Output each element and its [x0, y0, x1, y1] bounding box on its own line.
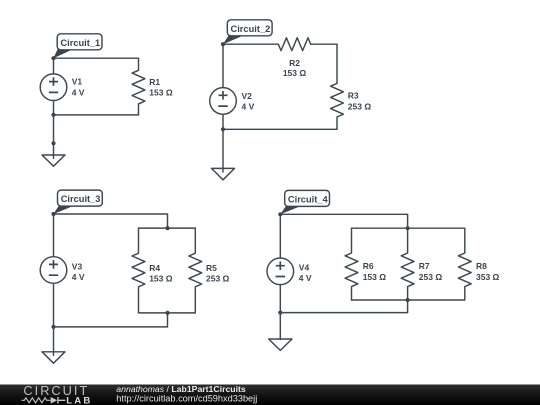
- logo diode: [51, 397, 66, 404]
- wire bottom C3: [54, 313, 168, 327]
- wire bottom C2: [223, 128, 337, 130]
- wire left-bottom C3: [53, 284, 55, 327]
- wire top C3: [54, 214, 168, 228]
- ground C3: [42, 352, 65, 363]
- wire left-bottom C2: [222, 115, 224, 130]
- node dot C3 top-left: [51, 212, 55, 216]
- svg-text:V1: V1: [72, 77, 83, 87]
- footer line 1: author / title: [116, 384, 246, 394]
- wire bottom C4: [280, 300, 407, 313]
- resistor R4: [132, 228, 173, 313]
- wire top-left C2: [223, 43, 278, 45]
- svg-text:annathomas / Lab1Part1Circuits: annathomas / Lab1Part1Circuits: [116, 384, 246, 394]
- node dot C2 bottom-left: [221, 127, 225, 131]
- svg-text:http://circuitlab.com/cd59hxd3: http://circuitlab.com/cd59hxd33bejj: [116, 394, 257, 404]
- wire top bar C4: [352, 227, 465, 229]
- voltage source V3: [40, 257, 85, 284]
- svg-text:153 Ω: 153 Ω: [149, 88, 173, 98]
- resistor R2: [278, 38, 310, 78]
- svg-text:R6: R6: [363, 261, 374, 271]
- resistor R7: [401, 228, 442, 300]
- junction dot C4 top: [406, 226, 410, 230]
- svg-text:4 V: 4 V: [72, 272, 85, 282]
- wire left-top C1: [53, 58, 55, 73]
- svg-text:153 Ω: 153 Ω: [363, 272, 387, 282]
- wire left-top C3: [53, 214, 55, 256]
- svg-text:R1: R1: [149, 77, 160, 87]
- wire left-bottom C1: [53, 101, 55, 115]
- node dot C2 top-left: [221, 42, 225, 46]
- wire bottom C1: [54, 114, 139, 116]
- svg-text:Circuit_3: Circuit_3: [61, 194, 101, 204]
- node dot C1 bottom-left: [51, 113, 55, 117]
- wire ground stem C1: [53, 115, 55, 158]
- node dot C1 ground: [51, 141, 55, 145]
- svg-text:Circuit_1: Circuit_1: [60, 38, 100, 48]
- node label Circuit_3: [54, 190, 103, 214]
- svg-text:153 Ω: 153 Ω: [283, 68, 307, 78]
- resistor R3: [331, 44, 372, 129]
- svg-text:R4: R4: [149, 263, 160, 273]
- wire top bar C3: [139, 227, 196, 229]
- svg-text:Circuit_2: Circuit_2: [231, 24, 271, 34]
- svg-text:R7: R7: [419, 261, 430, 271]
- wire left-top C2: [222, 44, 224, 87]
- wire bottom bar C4: [352, 299, 465, 301]
- logo resistor zigzag: [22, 398, 51, 403]
- node dot C3 bottom-left: [51, 325, 55, 329]
- ground C2: [212, 168, 235, 179]
- node label Circuit_4: [280, 190, 329, 214]
- wire ground stem C3: [53, 327, 55, 356]
- svg-text:253 Ω: 253 Ω: [206, 273, 230, 283]
- logo LAB text: [66, 395, 92, 405]
- wire top-right C2: [311, 43, 337, 45]
- svg-text:V3: V3: [72, 261, 83, 271]
- junction dot C3 bottom: [165, 311, 169, 315]
- wire ground stem C2: [222, 129, 224, 172]
- ground C1: [42, 155, 65, 166]
- ground C4: [269, 339, 292, 350]
- svg-text:253 Ω: 253 Ω: [419, 272, 443, 282]
- node label Circuit_2: [223, 20, 272, 44]
- junction dot C3 top: [165, 226, 169, 230]
- node dot C1 top-left: [51, 56, 55, 60]
- svg-text:R3: R3: [348, 91, 359, 101]
- node label Circuit_1: [54, 34, 103, 58]
- node dot C4 bottom-left: [278, 311, 282, 315]
- svg-text:253 Ω: 253 Ω: [348, 101, 372, 111]
- svg-text:Circuit_4: Circuit_4: [288, 195, 329, 205]
- resistor R6: [345, 228, 386, 300]
- resistor R5: [189, 228, 230, 313]
- footer bar: [0, 385, 540, 405]
- svg-text:4 V: 4 V: [242, 102, 255, 112]
- svg-text:153 Ω: 153 Ω: [149, 273, 173, 283]
- voltage source V2: [210, 88, 255, 115]
- wire top C1: [54, 57, 139, 59]
- wire top C4: [280, 214, 407, 228]
- junction dot C4 bottom: [406, 298, 410, 302]
- wire ground stem C4: [279, 313, 281, 340]
- svg-text:R8: R8: [476, 261, 487, 271]
- voltage source V4: [267, 258, 312, 285]
- svg-text:V2: V2: [242, 91, 253, 101]
- resistor R8: [458, 228, 499, 300]
- svg-text:V4: V4: [299, 262, 310, 272]
- wire bottom bar C3: [139, 312, 196, 314]
- voltage source V1: [40, 74, 85, 101]
- footer line 2: url: [116, 394, 257, 404]
- wire left-bottom C4: [279, 285, 281, 313]
- wire left-top C4: [279, 214, 281, 257]
- svg-text:4 V: 4 V: [72, 87, 85, 97]
- svg-text:4 V: 4 V: [299, 273, 312, 283]
- logo CIRCUIT text: [23, 383, 89, 398]
- svg-text:R2: R2: [289, 58, 300, 68]
- svg-text:LAB: LAB: [66, 395, 92, 405]
- svg-text:R5: R5: [206, 263, 217, 273]
- svg-text:353 Ω: 353 Ω: [476, 272, 500, 282]
- resistor R1: [132, 58, 173, 115]
- node dot C4 top-left: [278, 212, 282, 216]
